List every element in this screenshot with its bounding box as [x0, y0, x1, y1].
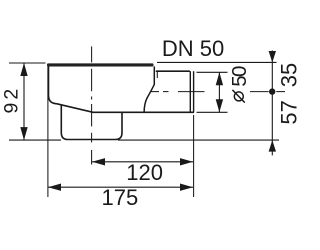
extension line top-right (DN50 / top of unit) — [157, 61, 277, 63]
junction dot 35/57 — [269, 88, 275, 94]
dimension 175 line — [48, 186, 193, 188]
extension line top-left (92 top) — [9, 62, 46, 64]
dimension 35/57 line — [271, 50, 273, 155]
extension line bottom-right (57 bottom / base) — [118, 139, 279, 141]
arrow down to top edge (35) — [269, 51, 276, 63]
diameter symbol circle — [234, 92, 243, 101]
dimension d50 arrow down — [216, 99, 223, 112]
extension line bottom-left (92 bottom) — [9, 139, 61, 141]
dimension 92 line — [23, 63, 25, 140]
extension line pipe top (d50) — [197, 71, 228, 73]
dimension 120 arrow left — [92, 158, 105, 165]
dimension d50 arrow up — [216, 72, 223, 85]
outlet pipe top edge — [156, 70, 190, 72]
svg-text:35: 35 — [277, 63, 300, 87]
extension line pipe bottom (d50) — [197, 111, 228, 113]
body outline left/bottom — [49, 66, 195, 112]
dimension d50 line — [218, 72, 220, 112]
svg-text:50: 50 — [228, 66, 251, 87]
svg-text:175: 175 — [102, 185, 139, 210]
horizontal centerline of outlet pipe — [151, 91, 286, 93]
extension line pipe-end vertical (120/175 right boundary) — [193, 115, 195, 197]
pipe end bead line 1 — [189, 71, 191, 112]
dimension 120 line — [92, 161, 193, 163]
pipe end bead line 2 (pipe end) — [193, 71, 195, 112]
dimension 92 arrow down — [20, 127, 27, 140]
svg-text:92: 92 — [1, 86, 23, 114]
diameter symbol slash — [232, 90, 244, 103]
svg-text:DN 50: DN 50 — [162, 36, 224, 61]
dimension 175 arrow left — [48, 184, 61, 191]
arrow up to base line (57) — [269, 140, 276, 152]
extension line left vertical (175 left boundary) — [47, 67, 49, 198]
dimension 120 arrow right — [180, 158, 193, 165]
svg-text:120: 120 — [126, 160, 163, 185]
socket lip tick — [156, 71, 158, 78]
vertical centerline extension to 120 dim — [91, 150, 93, 165]
dimension 175 arrow right — [180, 184, 193, 191]
body right wall (taper to pipe) — [144, 66, 154, 112]
svg-text:57: 57 — [277, 100, 300, 124]
flange (top plate) — [47, 63, 154, 66]
vertical centerline of body — [91, 46, 93, 142]
sump (trap bowl) — [61, 105, 122, 140]
dimension 92 arrow up — [20, 63, 27, 76]
